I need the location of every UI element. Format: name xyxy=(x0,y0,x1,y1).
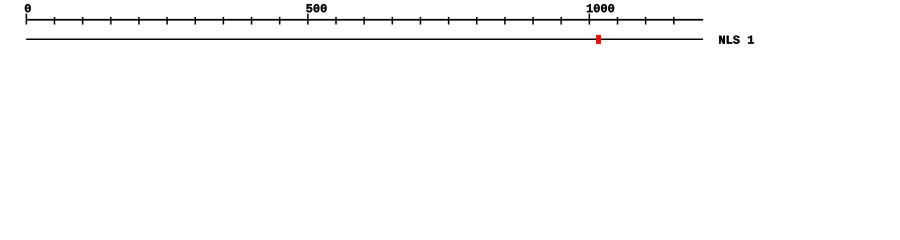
minor tick 1050 xyxy=(617,17,619,25)
sequence line xyxy=(26,38,703,40)
long tick 0 xyxy=(25,14,27,25)
minor tick 350 xyxy=(222,17,224,25)
minor tick 900 xyxy=(532,17,534,25)
long tick 500 xyxy=(307,14,309,25)
minor tick 800 xyxy=(476,17,478,25)
minor tick 600 xyxy=(363,17,365,25)
minor tick 1100 xyxy=(645,17,647,25)
ruler label 500 xyxy=(306,4,326,12)
minor tick 550 xyxy=(335,17,337,25)
NLS motif marker (red) xyxy=(596,35,601,44)
minor tick 700 xyxy=(419,17,421,25)
minor tick 100 xyxy=(82,17,84,25)
minor tick 200 xyxy=(138,17,140,25)
minor tick 150 xyxy=(110,17,112,25)
minor tick 450 xyxy=(279,17,281,25)
minor tick 950 xyxy=(560,17,562,25)
ruler label 0 xyxy=(25,4,31,12)
minor tick 750 xyxy=(448,17,450,25)
minor tick 400 xyxy=(251,17,253,25)
minor tick 250 xyxy=(166,17,168,25)
track label NLS 1 xyxy=(719,36,754,44)
long tick 1000 xyxy=(588,14,590,25)
minor tick 650 xyxy=(391,17,393,25)
ruler axis line xyxy=(26,19,703,21)
minor tick 850 xyxy=(504,17,506,25)
minor tick 300 xyxy=(194,17,196,25)
minor tick 50 xyxy=(54,17,56,25)
minor tick 1150 xyxy=(673,17,675,25)
ruler label 1000 xyxy=(587,4,614,12)
